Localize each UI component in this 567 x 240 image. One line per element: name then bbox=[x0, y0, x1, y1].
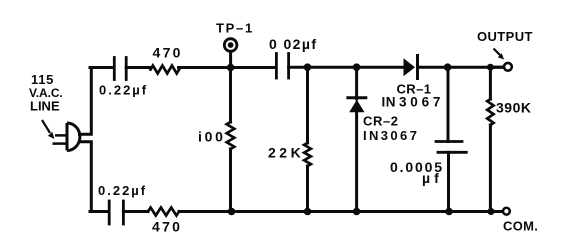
plug P1 body bbox=[53, 123, 80, 151]
terminal OUTPUT circle bbox=[504, 63, 512, 71]
wire cap-branch lower bbox=[447, 152, 450, 211]
node junction top TP-1 bbox=[227, 64, 235, 72]
node junction top 22K bbox=[304, 63, 312, 71]
svg-text:390K: 390K bbox=[496, 100, 531, 116]
wire CR-2 branch lower bbox=[355, 111, 358, 212]
diode CR-1 bbox=[404, 54, 418, 80]
svg-text:µf: µf bbox=[422, 170, 443, 186]
capacitor C3 0.02uf bbox=[276, 54, 288, 79]
wire 100-branch lower bbox=[229, 149, 232, 212]
arrow from OUTPUT label bbox=[494, 49, 505, 60]
wire bottom rail segment 1 bbox=[90, 210, 108, 213]
node junction bottom CR-2 bbox=[353, 208, 361, 216]
node junction top cap bbox=[444, 63, 452, 71]
node junction bottom 390K bbox=[488, 208, 495, 215]
node junction top 390K bbox=[487, 64, 494, 71]
svg-text:COM.: COM. bbox=[503, 219, 538, 234]
resistor R2 470 bottom bbox=[148, 208, 179, 216]
node junction bottom cap bbox=[445, 208, 453, 216]
svg-text:CR–2: CR–2 bbox=[363, 114, 399, 129]
capacitor C4 0.0005uf bbox=[436, 142, 466, 153]
wire left bus upper bbox=[80, 68, 92, 135]
wire bottom rail segment 2 bbox=[123, 210, 148, 213]
node junction top CR-2 bbox=[353, 63, 361, 71]
wire top rail segment 4 bbox=[289, 66, 404, 69]
svg-text:TP–1: TP–1 bbox=[216, 21, 254, 36]
arrow from LINE label to plug bbox=[42, 120, 55, 139]
wire top rail segment 2 bbox=[126, 66, 151, 69]
svg-text:0.22µf: 0.22µf bbox=[98, 183, 147, 198]
capacitor C2 0.22uf bottom bbox=[109, 201, 123, 224]
wire top rail segment 1 bbox=[90, 66, 113, 69]
plug prong 1 bbox=[55, 134, 67, 137]
plug prong 2 bbox=[53, 142, 68, 145]
svg-text:3067: 3067 bbox=[399, 95, 444, 110]
node junction bottom 100 bbox=[228, 208, 236, 216]
svg-text:0 02µf: 0 02µf bbox=[269, 36, 317, 52]
svg-text:115: 115 bbox=[31, 72, 54, 87]
diode CR-2 bbox=[346, 98, 367, 113]
wire 22K-branch lower bbox=[306, 166, 309, 212]
svg-text:22K: 22K bbox=[268, 145, 304, 161]
svg-text:0.22µf: 0.22µf bbox=[99, 83, 148, 98]
wire top rail segment 3 bbox=[179, 66, 276, 69]
resistor R3 100 bbox=[227, 122, 235, 149]
wire top rail segment 5 bbox=[418, 66, 504, 69]
terminal COM circle bbox=[503, 208, 510, 215]
wire 390K-branch lower bbox=[489, 125, 492, 212]
svg-text:i00: i00 bbox=[198, 129, 226, 145]
resistor R5 390K bbox=[487, 99, 493, 125]
svg-text:OUTPUT: OUTPUT bbox=[477, 29, 533, 44]
svg-text:IN: IN bbox=[382, 95, 397, 110]
svg-text:IN3067: IN3067 bbox=[363, 128, 419, 143]
test point TP-1 circle bbox=[224, 39, 237, 52]
wire cap-branch upper bbox=[447, 67, 450, 141]
node junction bottom 22K bbox=[304, 208, 312, 216]
resistor R4 22K bbox=[304, 143, 311, 166]
wire 100-branch upper bbox=[229, 68, 232, 123]
svg-text:470: 470 bbox=[153, 45, 183, 61]
capacitor C1 0.22uf top bbox=[114, 58, 126, 80]
resistor R1 470 top bbox=[151, 66, 180, 74]
wire output stub bbox=[494, 66, 503, 69]
wire 390K-branch upper bbox=[489, 67, 492, 99]
wire bottom rail segment 3 bbox=[179, 210, 503, 213]
wire CR-2 branch upper bbox=[355, 67, 358, 99]
svg-text:LINE: LINE bbox=[30, 99, 60, 114]
svg-text:470: 470 bbox=[152, 219, 182, 234]
wire 22K-branch upper bbox=[306, 67, 309, 143]
wire left bus lower bbox=[80, 142, 92, 212]
test point TP-1 stem bbox=[229, 53, 232, 68]
